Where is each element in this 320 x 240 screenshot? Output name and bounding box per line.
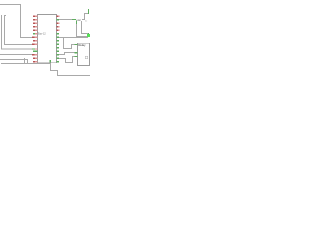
svg-text:Exp-12: Exp-12 <box>38 32 47 36</box>
svg-text:xtal: xtal <box>77 18 82 22</box>
svg-text:Relay: Relay <box>78 43 86 47</box>
